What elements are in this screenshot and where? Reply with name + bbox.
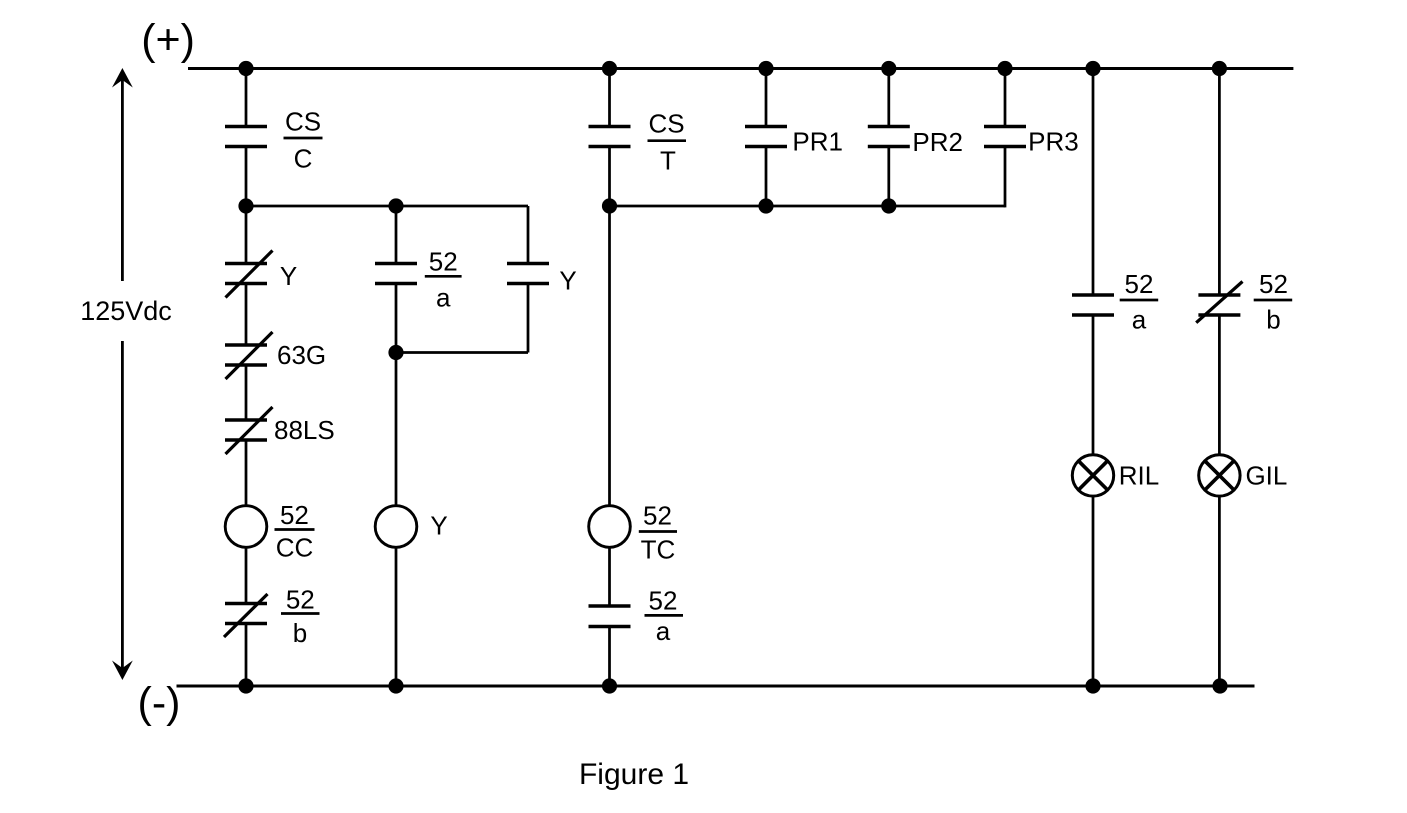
- wire lower node to coil Y: [395, 353, 398, 507]
- label CS/T: [648, 109, 687, 176]
- slash of NC contact 63G: [226, 332, 273, 379]
- svg-text:PR2: PR2: [912, 127, 963, 157]
- wire 52/b to bottom bus: [245, 624, 248, 687]
- junction dot D top bus: [1085, 61, 1100, 76]
- svg-text:a: a: [656, 616, 671, 646]
- junction dot PR3 top: [997, 61, 1012, 76]
- wire to 88LS: [245, 365, 248, 420]
- svg-text:52: 52: [649, 586, 678, 616]
- svg-text:CS: CS: [648, 109, 684, 139]
- svg-text:PR3: PR3: [1028, 127, 1079, 157]
- label 52/CC: [275, 500, 315, 563]
- NC contact 88LS: [225, 420, 267, 440]
- wire branch A top: [245, 69, 248, 127]
- wire PR1 to node line: [765, 147, 768, 207]
- junction dot PR1 top: [758, 61, 773, 76]
- svg-text:63G: 63G: [277, 340, 326, 370]
- junction dot B bottom bus: [388, 678, 403, 693]
- label CS/C: [284, 107, 323, 174]
- label 52/b: [281, 585, 320, 649]
- node line right: [610, 205, 1006, 208]
- junction dot C node: [602, 198, 617, 213]
- svg-text:52: 52: [286, 585, 315, 615]
- wire contact to lamp RIL: [1092, 315, 1095, 455]
- wire branch A node to contact Y: [245, 206, 248, 264]
- slash of NC contact Y: [226, 251, 273, 298]
- svg-text:CS: CS: [285, 107, 321, 137]
- junction dot lower node B: [388, 345, 403, 360]
- label 52/TC: [639, 501, 677, 565]
- lamp RIL: [1072, 455, 1113, 496]
- junction dot A top bus: [238, 61, 253, 76]
- coil 52/TC: [589, 506, 631, 548]
- wire CS/T to node: [608, 147, 611, 207]
- slash of NC contact 52/b branch E: [1196, 282, 1242, 323]
- contact CS/T: [589, 127, 631, 147]
- wire lamp GIL to bottom bus: [1218, 496, 1221, 686]
- slash of NC contact 52/b: [224, 594, 268, 637]
- wire 52/a to bottom bus: [608, 627, 611, 687]
- junction dot E bottom bus: [1212, 678, 1227, 693]
- wire to 63G: [245, 284, 248, 346]
- wire PR1 drop: [765, 69, 768, 127]
- contact CS/C: [225, 127, 267, 147]
- NO contact 52/a branch C: [589, 606, 631, 627]
- wire coil Y to bottom bus: [395, 547, 398, 687]
- svg-text:b: b: [1266, 305, 1280, 335]
- svg-text:52: 52: [429, 247, 458, 277]
- arrowhead bottom: [112, 661, 133, 681]
- NO contact 52/a branch D: [1072, 295, 1114, 315]
- wire 52/a to lower node: [395, 284, 398, 353]
- junction dot B node: [388, 198, 403, 213]
- svg-text:T: T: [660, 146, 676, 176]
- svg-text:125Vdc: 125Vdc: [80, 296, 172, 326]
- svg-text:(-): (-): [138, 679, 181, 727]
- wire PR3 to node line corner: [1004, 147, 1007, 208]
- svg-text:Figure 1: Figure 1: [579, 758, 689, 791]
- svg-text:(+): (+): [141, 16, 195, 64]
- svg-text:Y: Y: [559, 266, 576, 296]
- svg-text:RIL: RIL: [1119, 460, 1159, 490]
- wire branch D drop: [1092, 69, 1095, 296]
- lamp GIL: [1199, 455, 1240, 496]
- junction dot C top bus: [602, 61, 617, 76]
- wire lamp RIL to bottom bus: [1092, 496, 1095, 686]
- junction dot A node: [238, 198, 253, 213]
- voltage arrow 125Vdc shaft lower: [121, 341, 124, 670]
- junction dot A bottom bus: [238, 678, 253, 693]
- label 52/a branch D: [1120, 269, 1159, 335]
- negative bus (-) rail: [177, 685, 1255, 688]
- NO contact PR2: [868, 127, 910, 147]
- node line left: [246, 205, 528, 208]
- wire branch C top: [608, 69, 611, 127]
- junction dot PR2 bottom: [881, 198, 896, 213]
- wire to coil 52/CC: [245, 440, 248, 507]
- svg-text:PR1: PR1: [792, 127, 843, 157]
- NO contact Y branch: [507, 264, 549, 284]
- wire Y branch join: [396, 351, 528, 354]
- wire branch A to node: [245, 147, 248, 207]
- coil Y: [375, 506, 417, 548]
- wire branch E drop: [1218, 69, 1221, 296]
- junction dot C bottom bus: [602, 678, 617, 693]
- label 52/a branch B: [425, 247, 462, 313]
- NO contact PR3: [984, 127, 1026, 147]
- svg-text:GIL: GIL: [1245, 460, 1287, 490]
- wire Y contact down: [527, 284, 530, 353]
- svg-text:C: C: [294, 144, 313, 174]
- wire Y-contact drop from node line: [527, 206, 530, 264]
- wire PR2 to node line: [887, 147, 890, 207]
- svg-text:b: b: [293, 618, 307, 648]
- wire branch B node to 52/a: [395, 206, 398, 264]
- label 52/b branch E: [1254, 269, 1293, 335]
- svg-text:52: 52: [1125, 269, 1154, 299]
- NC contact 52/b branch E: [1198, 295, 1240, 315]
- wire PR2 drop: [887, 69, 890, 127]
- junction dot D bottom bus: [1085, 678, 1100, 693]
- svg-text:Y: Y: [430, 511, 447, 541]
- slash of NC contact 88LS: [226, 407, 273, 454]
- svg-text:88LS: 88LS: [274, 415, 335, 445]
- svg-text:52: 52: [1259, 269, 1288, 299]
- svg-text:CC: CC: [276, 533, 314, 563]
- wire PR3 drop: [1004, 69, 1007, 127]
- NC contact 63G: [225, 345, 267, 365]
- label 52/a branch C: [645, 586, 684, 647]
- wire coil TC to 52/a: [608, 547, 611, 607]
- NC contact Y: [225, 264, 267, 284]
- junction dot PR1 bottom: [758, 198, 773, 213]
- arrowhead top: [112, 68, 133, 88]
- NO contact PR1: [745, 127, 787, 147]
- wire branch C long drop: [608, 206, 611, 507]
- svg-text:52: 52: [280, 500, 309, 530]
- svg-text:Y: Y: [280, 261, 297, 291]
- wire coil to 52/b: [245, 547, 248, 604]
- coil 52/CC: [225, 506, 267, 548]
- svg-text:52: 52: [643, 501, 672, 531]
- junction dot PR2 top: [881, 61, 896, 76]
- NO contact 52/a branch B: [375, 264, 417, 284]
- wire contact to lamp GIL: [1218, 315, 1221, 455]
- junction dot E top bus: [1212, 61, 1227, 76]
- positive bus (+) rail: [188, 67, 1293, 70]
- svg-text:a: a: [436, 283, 451, 313]
- NC contact 52/b: [225, 604, 267, 624]
- svg-text:TC: TC: [641, 535, 676, 565]
- svg-text:a: a: [1132, 305, 1147, 335]
- voltage arrow 125Vdc shaft upper: [121, 78, 124, 281]
